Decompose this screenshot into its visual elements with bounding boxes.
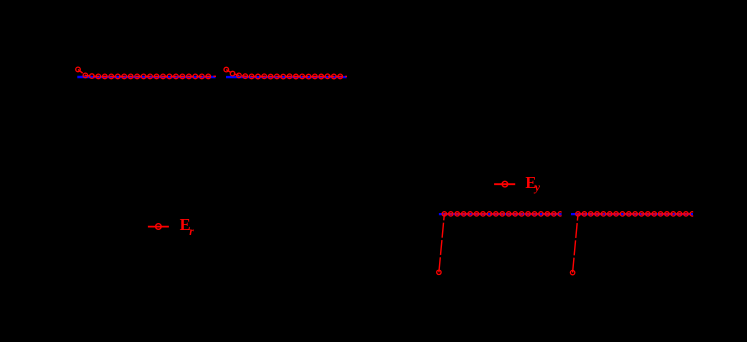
curve 2 red dashed data line bbox=[226, 70, 347, 77]
curve 4 red dashed data line bbox=[573, 214, 693, 273]
curve 2 circle markers bbox=[224, 67, 343, 79]
curve 1 red dashed data line bbox=[78, 69, 216, 76]
curve 4 circle markers bbox=[570, 212, 694, 275]
curve 3 blue reference line bbox=[439, 213, 562, 215]
curve 3 circle markers bbox=[437, 212, 563, 275]
svg-text:r: r bbox=[189, 226, 194, 238]
legend E_r sample line bbox=[148, 226, 169, 228]
legend E_r sample marker bbox=[156, 224, 162, 230]
curve 4 blue reference line bbox=[571, 213, 693, 215]
legend E_y sample marker bbox=[502, 181, 508, 187]
curve 3 red dashed data line bbox=[439, 214, 560, 272]
svg-text:y: y bbox=[533, 182, 541, 194]
curve 1 blue reference line bbox=[77, 76, 215, 78]
legend E_y sample line bbox=[494, 183, 515, 185]
curve 2 blue reference line bbox=[226, 76, 347, 78]
curve 1 circle markers bbox=[76, 67, 211, 79]
